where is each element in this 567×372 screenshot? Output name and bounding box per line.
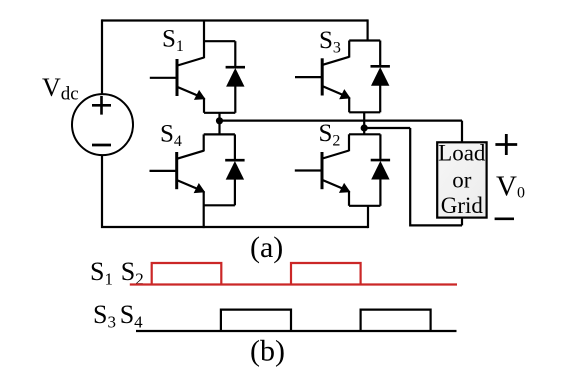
node a vertical wire: [218, 113, 220, 135]
diode D2 (S2 antiparallel): [371, 134, 390, 206]
label + (output polarity): [495, 134, 517, 155]
wire S3 collector stub: [348, 41, 350, 58]
svg-text:(b): (b): [250, 334, 285, 367]
wire S1 emitter: [203, 98, 205, 113]
wire top rail drop to S3: [367, 19, 369, 40]
waveform S3S4 pulse 1: [221, 310, 291, 331]
voltage source Vdc: [72, 94, 133, 155]
wire S2 emitter: [348, 191, 350, 206]
transistor S4: [150, 151, 204, 193]
wire S2 to bottom rail: [367, 206, 369, 228]
wire S1 collector: [203, 21, 205, 59]
diode D1 (S1 antiparallel): [226, 41, 245, 113]
wire left rail upper: [101, 19, 103, 94]
wire S2 collector stub: [348, 134, 350, 151]
wire top rail: [102, 19, 368, 21]
waveform S3S4 baseline: [136, 330, 457, 332]
transistor S3: [295, 57, 349, 99]
waveform S1S2 pulse 1 (red): [152, 263, 222, 285]
waveform S1S2 pulse 2 (red): [291, 263, 361, 285]
svg-text:Load: Load: [438, 141, 486, 166]
wire S4 top bar: [204, 133, 235, 135]
svg-text:or: or: [452, 168, 472, 193]
diode D3 (S3 antiparallel): [371, 41, 390, 113]
transistor S1: [150, 58, 204, 100]
wire node a to load top: [220, 121, 463, 143]
wire node b to load bottom: [364, 128, 462, 225]
wire S2 top bar: [349, 133, 380, 135]
wire S1 top bar: [204, 40, 235, 42]
wire S4 emitter: [203, 191, 205, 228]
wire left rail lower: [102, 155, 368, 228]
wire S4 bottom bar: [204, 204, 235, 206]
wire S2 bottom bar: [349, 205, 380, 207]
node b vertical wire: [363, 112, 365, 134]
wire S1 bottom bar: [204, 112, 235, 114]
node a junction dot: [216, 117, 223, 124]
node b junction dot: [361, 124, 368, 131]
svg-text:Grid: Grid: [441, 193, 484, 218]
wire S3 emitter: [348, 97, 350, 112]
wire S4 collector: [203, 134, 205, 151]
diode D4 (S4 antiparallel): [225, 134, 244, 205]
waveform S1S2 baseline (red): [130, 283, 457, 285]
wire S3 top bar: [349, 39, 380, 41]
waveform S3S4 pulse 2: [361, 310, 431, 331]
wire S3 bottom bar: [349, 111, 380, 113]
svg-text:(a): (a): [250, 231, 283, 264]
transistor S2: [295, 151, 349, 193]
label minus (output polarity): [495, 218, 514, 221]
load box: [437, 141, 486, 219]
